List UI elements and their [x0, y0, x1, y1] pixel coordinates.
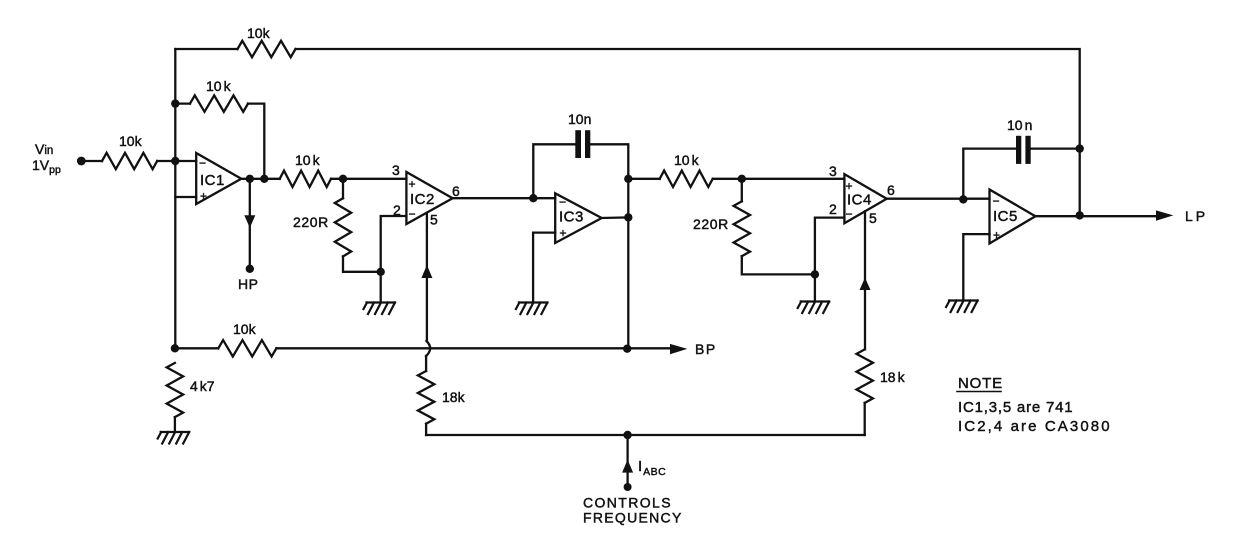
- wire IC2 pin5 with arrow down to R9 hop: [425, 213, 428, 371]
- resistor R9 18k: [418, 371, 434, 424]
- svg-text:−: −: [199, 156, 206, 170]
- svg-text:HP: HP: [238, 276, 258, 292]
- wire 220R branch R4 top: [342, 179, 344, 198]
- svg-text:+: +: [993, 228, 1000, 242]
- op-amp U5 IC5 triangle: [990, 190, 1036, 244]
- resistor R1 10k input: [102, 153, 157, 169]
- arrow IABC up: [622, 460, 633, 473]
- svg-text:5: 5: [869, 210, 877, 226]
- svg-text:18k: 18k: [880, 369, 906, 385]
- resistor R4 220R: [335, 198, 351, 256]
- node feedback junction A: [171, 99, 179, 107]
- svg-text:220R: 220R: [293, 214, 329, 230]
- wire IC2 output pin6 to IC3: [453, 197, 556, 199]
- wire IC1 noninverting to left bus: [175, 196, 196, 198]
- svg-text:10n: 10n: [568, 111, 591, 127]
- op-amp U4 IC4 triangle: [844, 174, 886, 223]
- resistor R7 10k BP: [218, 340, 276, 356]
- arrow HP down: [244, 215, 255, 228]
- wire input to IC1 inverting: [81, 160, 196, 162]
- svg-text:+: +: [560, 226, 567, 240]
- node IC4 ground junction: [811, 270, 819, 278]
- wire BP line: [175, 347, 671, 349]
- svg-text:2: 2: [829, 201, 837, 217]
- svg-text:4k7: 4k7: [190, 378, 215, 394]
- arrow LP right: [1156, 210, 1173, 220]
- node IC1 output feedback branch: [260, 175, 268, 183]
- wire top feedback from input node to LP output: [175, 49, 1079, 215]
- wire cap C2 branch left: [963, 149, 1016, 200]
- node BP-left junction: [171, 344, 179, 352]
- svg-text:10k: 10k: [233, 321, 257, 337]
- wire feedback branch to R2: [175, 104, 264, 179]
- wire IC2 pin2 to ground node: [381, 216, 407, 272]
- wire R5 from vertical node to IC4 pin3: [628, 178, 844, 180]
- wire IC3 noninverting to ground: [533, 233, 555, 302]
- wire IC5 noninverting to ground: [963, 234, 989, 300]
- node cap C2 right junction: [1076, 144, 1084, 152]
- svg-text:CONTROLS: CONTROLS: [583, 495, 672, 511]
- svg-text:−: −: [559, 195, 566, 209]
- ground R8 bottom left: [158, 432, 190, 444]
- wire IABC stub: [626, 435, 628, 486]
- node IC2 out junction: [529, 194, 537, 202]
- capacitor C1 10n plates: [575, 130, 581, 158]
- svg-text:−: −: [846, 207, 853, 221]
- wire IC4 output pin6 to IC5: [887, 198, 990, 200]
- capacitor C2 10n plates: [1016, 136, 1021, 164]
- svg-text:220R: 220R: [693, 216, 729, 232]
- node cap C1 to R5 junction: [624, 175, 632, 183]
- wire bottom control rail: [426, 434, 865, 436]
- svg-text:18k: 18k: [442, 389, 466, 405]
- wire 220R branch R6 top: [741, 179, 743, 202]
- svg-text:Vin: Vin: [35, 141, 53, 157]
- svg-text:−: −: [993, 194, 1000, 208]
- node IC3 output junction: [624, 213, 632, 221]
- ground IC2: [364, 303, 396, 315]
- svg-text:+: +: [846, 179, 853, 193]
- svg-text:IC5: IC5: [993, 208, 1018, 225]
- wire ground stem IC4: [814, 274, 816, 301]
- node R5-220R junction: [738, 175, 746, 183]
- svg-text:NOTE: NOTE: [958, 375, 1003, 392]
- node BP junction: [623, 345, 631, 353]
- svg-text:10k: 10k: [206, 78, 232, 94]
- arrow IC4 pin5 up: [860, 278, 871, 290]
- resistor R10 18k: [857, 349, 873, 403]
- svg-text:IC1,3,5 are 741: IC1,3,5 are 741: [958, 399, 1073, 416]
- resistor R6 220R: [734, 201, 750, 256]
- wire ground stem IC2: [380, 272, 382, 302]
- node LP output junction: [1076, 211, 1084, 219]
- ground IC4: [798, 302, 830, 314]
- note underline: [957, 391, 1001, 393]
- svg-text:LP: LP: [1185, 208, 1208, 224]
- svg-text:10n: 10n: [1007, 117, 1032, 133]
- wire left vertical bus: [174, 49, 176, 348]
- resistor R2 10k feedback: [190, 95, 248, 111]
- wire IC3 output to vertical: [602, 216, 629, 219]
- resistor R top 10k: [238, 41, 296, 57]
- resistor R8 4k7: [167, 363, 183, 417]
- wire hop over BP line: [426, 341, 430, 356]
- svg-text:IC1: IC1: [200, 172, 225, 189]
- svg-text:+: +: [200, 189, 207, 203]
- ground IC3: [516, 303, 548, 315]
- svg-text:IABC: IABC: [638, 458, 666, 478]
- svg-text:10k: 10k: [674, 152, 700, 168]
- svg-text:10k: 10k: [119, 133, 143, 149]
- node IABC terminal dot: [624, 483, 632, 491]
- arrow BP right: [670, 344, 687, 354]
- svg-text:6: 6: [452, 183, 460, 199]
- node control rail junction: [623, 431, 631, 439]
- node input junction: [171, 157, 179, 165]
- node R3-220R junction: [339, 175, 347, 183]
- resistor R5 10k: [660, 171, 713, 187]
- wire IC1 output: [241, 178, 406, 180]
- arrow IC2 pin5 up: [421, 265, 432, 278]
- svg-text:+: +: [409, 177, 416, 191]
- wire IC4 pin5 down to R10: [864, 211, 866, 349]
- wire R10 bottom corner to rail: [864, 403, 866, 435]
- svg-text:10k: 10k: [247, 25, 271, 41]
- node IC2 ground junction: [377, 268, 385, 276]
- svg-text:IC4: IC4: [847, 192, 872, 209]
- svg-text:−: −: [409, 207, 416, 221]
- wire cap C1 right to vertical: [590, 144, 628, 348]
- wire cap C1 branch left: [533, 144, 575, 198]
- ground IC5: [946, 301, 978, 313]
- resistor R3 10k: [280, 171, 331, 187]
- svg-text:1Vpp: 1Vpp: [32, 157, 61, 176]
- op-amp U1 IC1 triangle: [196, 153, 241, 204]
- op-amp U3 IC3 triangle: [555, 193, 602, 243]
- svg-text:2: 2: [393, 202, 401, 218]
- svg-text:6: 6: [887, 182, 895, 198]
- svg-text:IC2,4 are CA3080: IC2,4 are CA3080: [958, 418, 1112, 435]
- svg-text:BP: BP: [695, 341, 717, 357]
- wire R9 bottom corner to rail: [425, 424, 427, 435]
- node IC1 output HP branch: [246, 175, 254, 183]
- op-amp U2 IC2 triangle: [406, 172, 452, 224]
- svg-text:10k: 10k: [295, 152, 321, 168]
- wire IC5 output to LP arrow: [1035, 215, 1158, 217]
- wire HP stub: [249, 179, 251, 269]
- node IC4 out junction: [959, 195, 967, 203]
- wire R8 bottom to ground: [174, 417, 176, 431]
- svg-text:FREQUENCY: FREQUENCY: [583, 510, 683, 526]
- wire IC4 pin2 to ground node: [815, 218, 845, 275]
- svg-text:5: 5: [430, 212, 438, 228]
- svg-text:3: 3: [829, 163, 837, 179]
- node HP terminal dot: [246, 265, 254, 273]
- wire R4 bottom to ground node: [343, 256, 381, 271]
- node input terminal: [77, 157, 86, 166]
- svg-text:3: 3: [392, 162, 400, 178]
- wire R6 bottom to ground node: [742, 256, 815, 274]
- wire cap C2 right to LP vertical: [1031, 147, 1080, 149]
- svg-text:IC3: IC3: [559, 209, 584, 226]
- svg-text:IC2: IC2: [410, 191, 435, 208]
